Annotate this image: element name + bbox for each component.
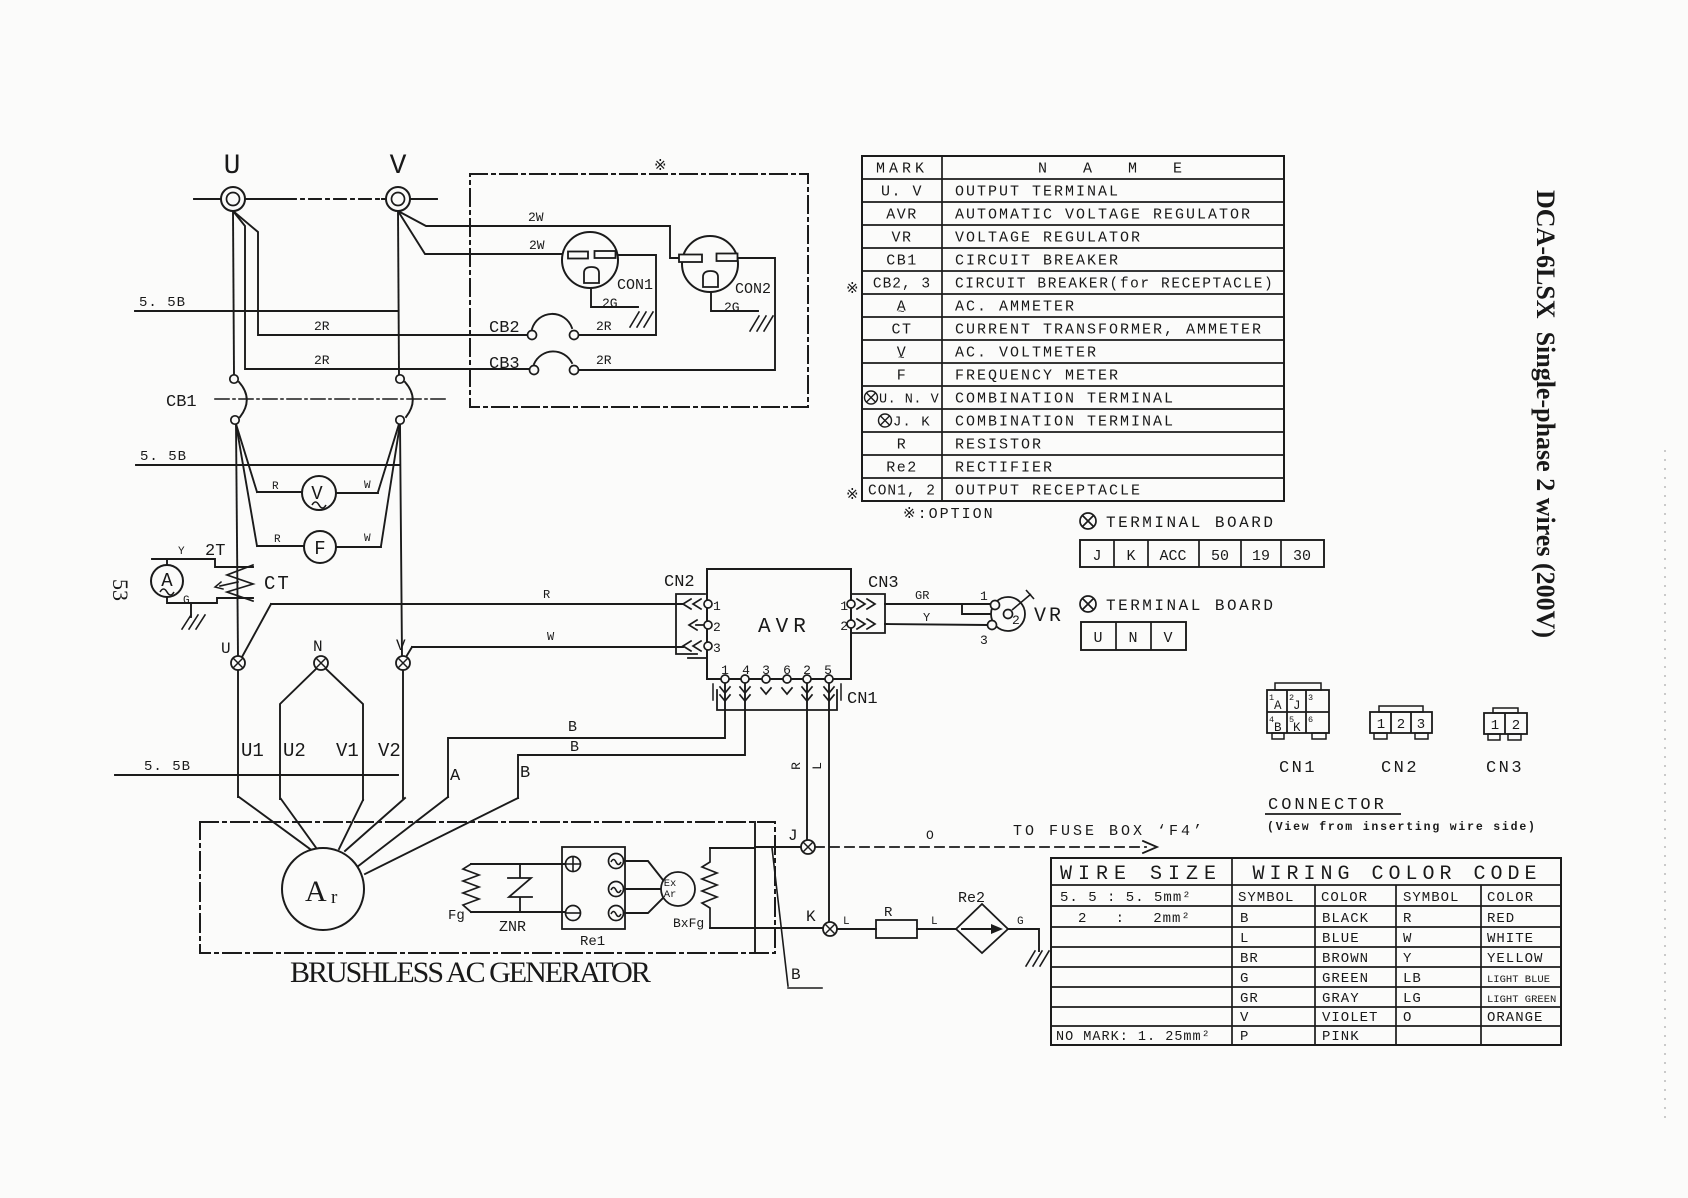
svg-text:LIGHT BLUE: LIGHT BLUE xyxy=(1487,974,1550,986)
svg-text:COLOR: COLOR xyxy=(1321,890,1368,906)
svg-text:CN3: CN3 xyxy=(868,574,899,593)
svg-text:AVR: AVR xyxy=(758,616,811,639)
svg-text:LIGHT GREEN: LIGHT GREEN xyxy=(1487,994,1556,1006)
svg-text:AUTOMATIC VOLTAGE REGULATOR: AUTOMATIC VOLTAGE REGULATOR xyxy=(955,207,1252,224)
svg-text:W: W xyxy=(1403,931,1412,947)
svg-text:19: 19 xyxy=(1252,548,1270,565)
svg-text:B: B xyxy=(1240,911,1249,927)
svg-text:U1: U1 xyxy=(241,740,264,762)
svg-text:NO MARK: 1. 25mm²: NO MARK: 1. 25mm² xyxy=(1056,1030,1211,1045)
svg-text:CT: CT xyxy=(891,322,912,339)
svg-text:Re2: Re2 xyxy=(958,890,985,907)
svg-text:2: 2 xyxy=(713,620,721,635)
svg-text:K: K xyxy=(1293,721,1301,735)
svg-text:RED: RED xyxy=(1487,911,1515,927)
svg-text:B: B xyxy=(568,719,577,736)
svg-text:B: B xyxy=(570,739,579,756)
svg-text:K: K xyxy=(1126,548,1135,565)
svg-text:R: R xyxy=(789,762,804,770)
svg-text:3: 3 xyxy=(980,633,988,648)
svg-text:W: W xyxy=(364,480,371,492)
svg-text:※: ※ xyxy=(846,487,859,504)
svg-text:YELLOW: YELLOW xyxy=(1487,951,1543,967)
svg-text:V2: V2 xyxy=(378,740,401,762)
svg-text:U: U xyxy=(224,151,241,182)
svg-text:CON1, 2: CON1, 2 xyxy=(868,484,936,500)
svg-text:L: L xyxy=(843,916,850,928)
svg-text:LG: LG xyxy=(1403,991,1422,1007)
svg-text:※: ※ xyxy=(654,158,667,175)
svg-text:Re1: Re1 xyxy=(580,934,605,950)
svg-text:CONNECTOR: CONNECTOR xyxy=(1268,796,1387,815)
svg-text:50: 50 xyxy=(1211,548,1229,565)
svg-text:W: W xyxy=(547,630,555,644)
svg-text:6: 6 xyxy=(1308,715,1313,725)
svg-text:※: ※ xyxy=(846,281,859,298)
svg-text:3: 3 xyxy=(1308,693,1313,703)
svg-text:Y: Y xyxy=(923,611,930,625)
svg-text:Y: Y xyxy=(178,546,185,558)
svg-text:BxFg: BxFg xyxy=(673,916,704,931)
svg-text:PINK: PINK xyxy=(1322,1029,1360,1045)
svg-text:5. 5B: 5. 5B xyxy=(144,759,191,775)
svg-text:OUTPUT RECEPTACLE: OUTPUT RECEPTACLE xyxy=(955,483,1142,500)
svg-text:CON1: CON1 xyxy=(617,277,653,294)
svg-text:1: 1 xyxy=(840,599,848,614)
svg-text:VR: VR xyxy=(891,230,912,247)
svg-text:5. 5B: 5. 5B xyxy=(139,295,186,311)
svg-text:B: B xyxy=(1274,721,1282,735)
svg-text:BR: BR xyxy=(1240,951,1259,967)
svg-text:RECTIFIER: RECTIFIER xyxy=(955,460,1054,477)
svg-text:5. 5B: 5. 5B xyxy=(140,449,187,465)
svg-text:r: r xyxy=(331,887,338,908)
svg-text:L: L xyxy=(931,916,938,928)
svg-text:(View from inserting wire side: (View from inserting wire side) xyxy=(1267,821,1537,834)
svg-text:U. N. V: U. N. V xyxy=(879,393,940,408)
svg-text:30: 30 xyxy=(1293,548,1311,565)
svg-text:ACC: ACC xyxy=(1159,548,1186,565)
svg-text:U2: U2 xyxy=(283,740,306,762)
svg-text:Re2: Re2 xyxy=(886,460,918,477)
svg-text:2: 2 xyxy=(1397,717,1405,733)
svg-text:2T: 2T xyxy=(205,542,225,561)
svg-text:VIOLET: VIOLET xyxy=(1322,1010,1378,1026)
svg-text:CT: CT xyxy=(264,573,291,595)
svg-text:FREQUENCY METER: FREQUENCY METER xyxy=(955,368,1120,385)
svg-text:P: P xyxy=(1240,1029,1249,1045)
svg-text:G: G xyxy=(1240,971,1249,987)
svg-text:TO FUSE BOX ‘F4’: TO FUSE BOX ‘F4’ xyxy=(1013,823,1205,840)
svg-text:R: R xyxy=(272,481,279,493)
svg-text:K: K xyxy=(806,908,816,926)
svg-text:N A M E: N A M E xyxy=(1038,161,1188,178)
svg-text:2W: 2W xyxy=(529,238,545,253)
svg-text:CB1: CB1 xyxy=(166,393,197,412)
svg-text:R: R xyxy=(897,437,908,454)
svg-text:3: 3 xyxy=(1417,717,1425,733)
svg-text:WIRING COLOR CODE: WIRING COLOR CODE xyxy=(1252,863,1541,886)
svg-text:A: A xyxy=(1274,699,1282,713)
svg-text:CN1: CN1 xyxy=(847,690,878,709)
svg-text:SYMBOL: SYMBOL xyxy=(1238,890,1294,906)
svg-text:GR: GR xyxy=(915,589,929,603)
svg-text:TERMINAL BOARD: TERMINAL BOARD xyxy=(1106,514,1275,532)
svg-text:~: ~ xyxy=(898,307,906,319)
svg-text:1: 1 xyxy=(1377,717,1385,733)
svg-text:Fg: Fg xyxy=(448,908,465,924)
svg-text:COMBINATION TERMINAL: COMBINATION TERMINAL xyxy=(955,391,1175,408)
svg-text:COLOR: COLOR xyxy=(1487,890,1534,906)
svg-text:6: 6 xyxy=(783,663,791,678)
svg-text:1: 1 xyxy=(1491,718,1499,734)
svg-text:A: A xyxy=(450,767,461,786)
svg-text:R: R xyxy=(543,588,550,602)
svg-text:J: J xyxy=(788,827,798,845)
svg-text:BLACK: BLACK xyxy=(1322,911,1369,927)
svg-text:TERMINAL BOARD: TERMINAL BOARD xyxy=(1106,597,1275,615)
svg-text:CIRCUIT BREAKER: CIRCUIT BREAKER xyxy=(955,253,1120,270)
svg-text:R: R xyxy=(1403,911,1412,927)
svg-text:O: O xyxy=(926,828,934,843)
svg-text:V: V xyxy=(1240,1010,1249,1026)
svg-text:N: N xyxy=(313,638,323,656)
svg-text:GREEN: GREEN xyxy=(1322,971,1369,987)
svg-text:U. V: U. V xyxy=(881,184,923,201)
svg-text:LB: LB xyxy=(1403,971,1422,987)
svg-text:RESISTOR: RESISTOR xyxy=(955,437,1043,454)
svg-text:2: 2 xyxy=(840,619,848,634)
svg-text:3: 3 xyxy=(762,663,770,678)
svg-text:CN1: CN1 xyxy=(1279,759,1317,778)
svg-text:U: U xyxy=(1093,630,1102,647)
svg-text:BLUE: BLUE xyxy=(1322,931,1360,947)
svg-text:2: 2 xyxy=(803,663,811,678)
svg-text:L: L xyxy=(1240,931,1249,947)
svg-text:J. K: J. K xyxy=(893,415,931,431)
svg-text:CN3: CN3 xyxy=(1486,759,1524,778)
svg-text:GRAY: GRAY xyxy=(1322,991,1360,1007)
svg-text:B: B xyxy=(520,764,530,783)
svg-text:53: 53 xyxy=(108,579,133,601)
svg-text:Ar: Ar xyxy=(664,889,677,901)
svg-text:N: N xyxy=(1128,630,1137,647)
svg-text:VR: VR xyxy=(1034,605,1064,628)
svg-text:WHITE: WHITE xyxy=(1487,931,1534,947)
svg-text:G: G xyxy=(1017,916,1024,928)
svg-text:AC. VOLTMETER: AC. VOLTMETER xyxy=(955,345,1098,362)
svg-text:WIRE SIZE: WIRE SIZE xyxy=(1060,863,1222,886)
svg-text:GR: GR xyxy=(1240,991,1259,1007)
svg-text:F: F xyxy=(897,368,908,385)
svg-text:CON2: CON2 xyxy=(735,281,771,298)
svg-text:COMBINATION TERMINAL: COMBINATION TERMINAL xyxy=(955,414,1175,431)
svg-text:Y: Y xyxy=(1403,951,1412,967)
svg-text:L: L xyxy=(810,762,825,770)
svg-text:SYMBOL: SYMBOL xyxy=(1403,890,1459,906)
svg-text:OUTPUT TERMINAL: OUTPUT TERMINAL xyxy=(955,184,1120,201)
svg-text:~: ~ xyxy=(898,353,906,365)
svg-text:1: 1 xyxy=(721,663,729,678)
svg-text:F: F xyxy=(314,538,325,560)
svg-text:U: U xyxy=(221,640,231,658)
svg-text:J: J xyxy=(1293,699,1301,713)
svg-text:2R: 2R xyxy=(596,353,612,368)
svg-text:2R: 2R xyxy=(596,319,612,334)
svg-text:J: J xyxy=(1092,548,1101,565)
svg-text:DCA-6LSX Single-phase 2 wires: DCA-6LSX Single-phase 2 wires (200V) xyxy=(1531,190,1560,638)
svg-text:O: O xyxy=(1403,1010,1412,1026)
svg-text:CB3: CB3 xyxy=(489,355,520,374)
svg-text:ZNR: ZNR xyxy=(499,919,526,936)
svg-text:V: V xyxy=(390,151,407,182)
svg-text:2W: 2W xyxy=(528,210,544,225)
svg-text:1: 1 xyxy=(713,599,721,614)
svg-text:3: 3 xyxy=(713,641,721,656)
svg-text:2: 2 xyxy=(1012,613,1020,628)
svg-text:G: G xyxy=(183,595,190,607)
svg-text:B: B xyxy=(791,966,801,984)
svg-text:CIRCUIT BREAKER(for RECEPTACLE: CIRCUIT BREAKER(for RECEPTACLE) xyxy=(955,277,1274,293)
svg-text:V: V xyxy=(311,483,323,505)
svg-text:BRUSHLESS AC GENERATOR: BRUSHLESS AC GENERATOR xyxy=(290,956,651,989)
svg-text:2G: 2G xyxy=(724,300,740,315)
svg-text:V: V xyxy=(1163,630,1172,647)
svg-text:2R: 2R xyxy=(314,353,330,368)
svg-text:MARK: MARK xyxy=(876,161,928,178)
svg-text:2: 2 xyxy=(1512,718,1520,734)
svg-text:5. 5 : 5. 5mm²: 5. 5 : 5. 5mm² xyxy=(1060,890,1192,906)
svg-text:5: 5 xyxy=(824,663,832,678)
svg-text:VOLTAGE REGULATOR: VOLTAGE REGULATOR xyxy=(955,230,1142,247)
svg-text:W: W xyxy=(364,533,371,545)
svg-text:2R: 2R xyxy=(314,319,330,334)
svg-text:R: R xyxy=(274,534,281,546)
svg-text:A: A xyxy=(161,570,173,592)
svg-text:CN2: CN2 xyxy=(1381,759,1419,778)
svg-text:CURRENT TRANSFORMER, AMMETER: CURRENT TRANSFORMER, AMMETER xyxy=(955,322,1263,339)
svg-text:CN2: CN2 xyxy=(664,573,695,592)
svg-text:2G: 2G xyxy=(602,296,618,311)
svg-text:CB1: CB1 xyxy=(886,253,918,270)
svg-text:A: A xyxy=(305,875,327,908)
svg-text:AVR: AVR xyxy=(886,207,918,224)
svg-text:2 : 2mm²: 2 : 2mm² xyxy=(1078,911,1191,927)
svg-text:AC. AMMETER: AC. AMMETER xyxy=(955,299,1076,316)
svg-text:R: R xyxy=(884,905,893,921)
svg-text:CB2: CB2 xyxy=(489,319,520,338)
svg-text:※:OPTION: ※:OPTION xyxy=(903,506,995,523)
svg-text:ORANGE: ORANGE xyxy=(1487,1010,1543,1026)
svg-text:4: 4 xyxy=(742,663,750,678)
svg-text:V1: V1 xyxy=(336,740,359,762)
svg-text:BROWN: BROWN xyxy=(1322,951,1369,967)
svg-text:CB2, 3: CB2, 3 xyxy=(873,277,931,293)
svg-text:1: 1 xyxy=(980,589,988,604)
svg-text:V: V xyxy=(396,637,406,655)
